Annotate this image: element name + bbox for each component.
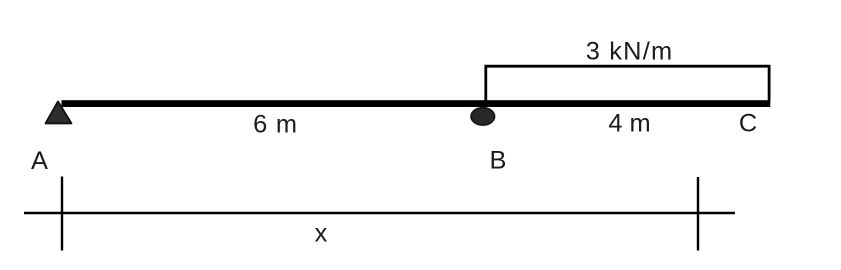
svg-text:6 m: 6 m	[253, 110, 298, 138]
dimension line x	[24, 212, 735, 215]
svg-text:3 kN/m: 3 kN/m	[586, 38, 674, 66]
beam A-C	[62, 100, 771, 107]
roller support B	[471, 108, 495, 125]
svg-text:4 m: 4 m	[608, 110, 650, 138]
dimension tick at A	[61, 177, 63, 251]
pin support A	[46, 102, 72, 124]
svg-text:A: A	[31, 147, 48, 175]
distributed load outline 3 kN/m	[486, 66, 769, 100]
svg-text:C: C	[739, 110, 757, 138]
svg-text:B: B	[490, 146, 507, 174]
dimension tick at right	[697, 177, 699, 251]
svg-text:x: x	[315, 220, 328, 248]
